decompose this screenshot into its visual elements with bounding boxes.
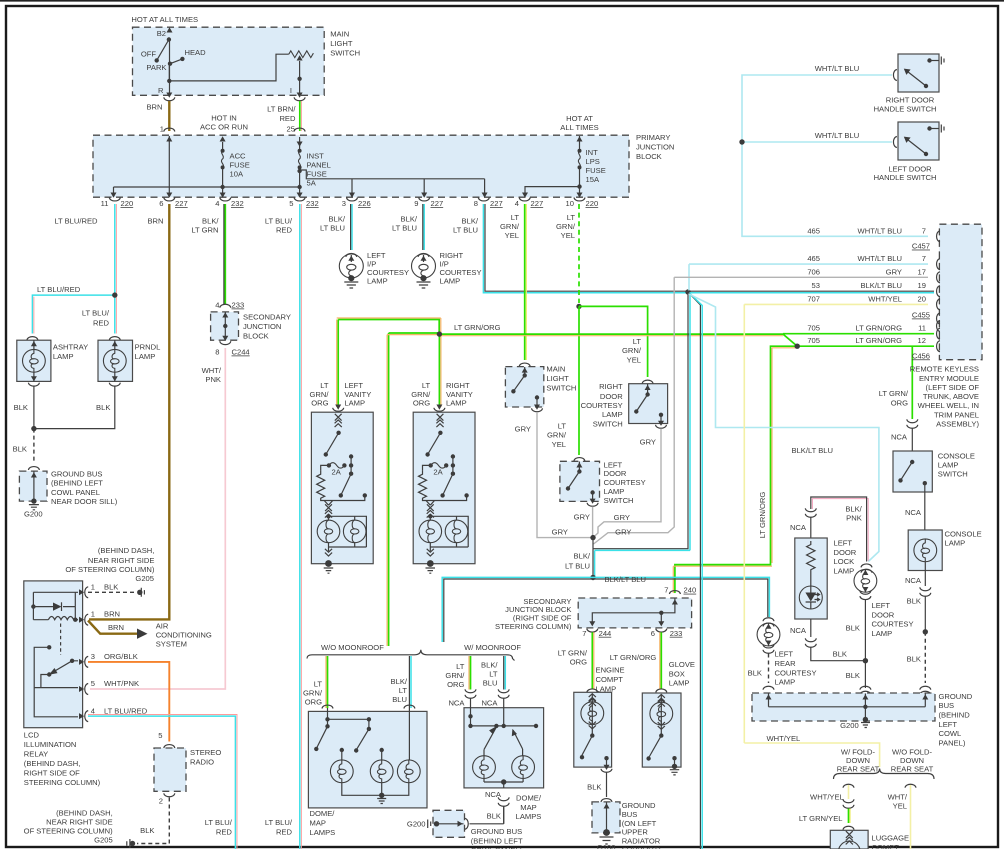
svg-text:B2: B2	[157, 29, 166, 38]
svg-text:RED: RED	[276, 225, 293, 234]
svg-text:W/ MOONROOF: W/ MOONROOF	[464, 643, 521, 652]
svg-text:REMOTE KEYLESS: REMOTE KEYLESS	[910, 365, 979, 374]
svg-text:RED: RED	[279, 114, 296, 123]
svg-text:WHT/: WHT/	[888, 792, 908, 801]
svg-text:TRUNK, ABOVE: TRUNK, ABOVE	[923, 392, 979, 401]
svg-text:LT GRN/: LT GRN/	[879, 389, 909, 398]
svg-text:NCA: NCA	[891, 432, 908, 441]
svg-text:STEREO: STEREO	[190, 748, 221, 757]
svg-text:465: 465	[807, 254, 820, 263]
svg-text:6: 6	[159, 199, 163, 208]
svg-text:(BEHIND DASH,: (BEHIND DASH,	[98, 546, 155, 555]
svg-text:(BEHIND: (BEHIND	[939, 711, 971, 720]
svg-text:REAR SEAT: REAR SEAT	[837, 765, 880, 774]
svg-text:LAMP: LAMP	[446, 399, 467, 408]
svg-text:7: 7	[922, 226, 926, 235]
svg-text:GRY: GRY	[574, 513, 590, 522]
svg-text:17: 17	[918, 267, 926, 276]
svg-text:MAP: MAP	[520, 803, 536, 812]
svg-text:7: 7	[582, 629, 586, 638]
svg-text:BLK/: BLK/	[202, 216, 219, 225]
svg-text:WHT/LT BLU: WHT/LT BLU	[858, 226, 902, 235]
svg-text:19: 19	[918, 281, 926, 290]
svg-text:1: 1	[91, 583, 95, 592]
svg-text:BRN: BRN	[108, 623, 124, 632]
svg-text:705: 705	[807, 324, 820, 333]
svg-text:GRN/: GRN/	[500, 222, 520, 231]
svg-text:BLK/: BLK/	[481, 661, 498, 670]
svg-text:LAMP: LAMP	[945, 538, 966, 547]
svg-text:SWITCH: SWITCH	[546, 384, 576, 393]
svg-text:RIGHT DOOR: RIGHT DOOR	[886, 96, 935, 105]
svg-text:RIGHT: RIGHT	[599, 382, 623, 391]
svg-text:(BEHIND LEFT: (BEHIND LEFT	[51, 479, 103, 488]
svg-text:233: 233	[232, 301, 245, 310]
svg-text:220: 220	[586, 199, 599, 208]
svg-text:HEAD: HEAD	[185, 48, 207, 57]
svg-text:BLK: BLK	[846, 624, 860, 633]
svg-text:HOT AT: HOT AT	[566, 114, 593, 123]
svg-text:RELAY: RELAY	[24, 750, 48, 759]
svg-text:GRY: GRY	[886, 267, 902, 276]
svg-text:705: 705	[807, 336, 820, 345]
svg-text:3: 3	[91, 652, 95, 661]
svg-text:LUGGAGE: LUGGAGE	[872, 834, 910, 843]
svg-text:8: 8	[215, 348, 219, 357]
svg-text:11: 11	[101, 199, 109, 208]
svg-text:BLK: BLK	[907, 597, 921, 606]
svg-text:WHT/YEL: WHT/YEL	[767, 734, 801, 743]
svg-text:4: 4	[215, 301, 219, 310]
svg-text:227: 227	[431, 199, 444, 208]
svg-text:LT BLU/: LT BLU/	[265, 818, 293, 827]
svg-text:ORG: ORG	[447, 680, 464, 689]
svg-text:BLK: BLK	[96, 403, 110, 412]
svg-text:LT GRN/ORG: LT GRN/ORG	[454, 323, 501, 332]
svg-text:HANDLE SWITCH: HANDLE SWITCH	[874, 105, 937, 114]
svg-text:ACC OR RUN: ACC OR RUN	[200, 122, 248, 131]
svg-text:PANEL: PANEL	[307, 161, 331, 170]
svg-text:NCA: NCA	[485, 790, 502, 799]
svg-text:RED: RED	[276, 828, 293, 837]
svg-text:LEFT: LEFT	[604, 460, 623, 469]
svg-text:4: 4	[515, 199, 519, 208]
svg-text:LCD: LCD	[24, 731, 40, 740]
svg-text:COURTESY: COURTESY	[604, 478, 646, 487]
svg-text:BLU: BLU	[392, 695, 407, 704]
svg-text:WHEEL WELL, IN: WHEEL WELL, IN	[918, 401, 979, 410]
svg-text:15A: 15A	[586, 175, 600, 184]
svg-text:NCA: NCA	[905, 508, 922, 517]
svg-text:ORG: ORG	[305, 698, 322, 707]
svg-text:(BEHIND DASH,: (BEHIND DASH,	[56, 809, 113, 818]
svg-text:CONDITIONING: CONDITIONING	[156, 630, 212, 639]
svg-text:4: 4	[215, 199, 219, 208]
svg-text:LT BLU/RED: LT BLU/RED	[54, 216, 98, 225]
svg-text:20: 20	[918, 294, 926, 303]
svg-text:LIGHT: LIGHT	[330, 39, 353, 48]
svg-text:LT BRN/: LT BRN/	[267, 105, 296, 114]
svg-text:220: 220	[121, 199, 134, 208]
svg-text:I: I	[290, 86, 292, 95]
svg-text:WHT/LT BLU: WHT/LT BLU	[815, 64, 859, 73]
svg-text:DOOR: DOOR	[834, 548, 857, 557]
svg-text:BLK/LT BLU: BLK/LT BLU	[860, 281, 902, 290]
svg-text:53: 53	[812, 281, 820, 290]
svg-text:BLK: BLK	[140, 826, 154, 835]
svg-text:NEAR DOOR SILL): NEAR DOOR SILL)	[51, 497, 118, 506]
svg-text:DOOR: DOOR	[872, 610, 895, 619]
svg-text:AIR: AIR	[156, 621, 169, 630]
svg-text:REAR SEAT: REAR SEAT	[891, 765, 934, 774]
svg-text:G205: G205	[135, 574, 154, 583]
svg-text:YEL: YEL	[505, 231, 519, 240]
svg-text:COWL: COWL	[939, 729, 962, 738]
svg-text:C456: C456	[912, 351, 930, 360]
svg-text:LT: LT	[320, 381, 329, 390]
svg-text:LT GRN/ORG: LT GRN/ORG	[610, 653, 657, 662]
svg-text:706: 706	[807, 267, 820, 276]
svg-text:226: 226	[358, 199, 371, 208]
svg-text:NCA: NCA	[481, 698, 498, 707]
svg-text:GROUND: GROUND	[939, 692, 973, 701]
svg-text:9: 9	[414, 199, 418, 208]
svg-text:BLK/: BLK/	[329, 215, 346, 224]
svg-text:W/O MOONROOF: W/O MOONROOF	[321, 643, 384, 652]
svg-text:JUNCTION: JUNCTION	[636, 143, 674, 152]
svg-text:CONSOLE: CONSOLE	[945, 529, 982, 538]
svg-text:LEFT: LEFT	[939, 720, 958, 729]
svg-text:G108: G108	[597, 843, 616, 849]
svg-text:LAMP: LAMP	[135, 352, 156, 361]
svg-text:(LEFT SIDE OF: (LEFT SIDE OF	[926, 383, 980, 392]
svg-text:WHT/YEL: WHT/YEL	[868, 294, 902, 303]
svg-text:UPPER: UPPER	[622, 828, 649, 837]
svg-text:6: 6	[651, 629, 655, 638]
svg-text:MAIN: MAIN	[546, 365, 565, 374]
svg-text:NCA: NCA	[448, 698, 465, 707]
svg-text:COURTESY: COURTESY	[775, 668, 817, 677]
svg-text:GRY: GRY	[614, 513, 630, 522]
svg-text:LT: LT	[567, 213, 576, 222]
svg-text:BLK/: BLK/	[845, 504, 862, 513]
svg-text:7: 7	[922, 254, 926, 263]
svg-text:HANDLE SWITCH: HANDLE SWITCH	[874, 173, 937, 182]
svg-text:244: 244	[599, 629, 612, 638]
svg-text:8: 8	[474, 199, 478, 208]
svg-text:GRN/: GRN/	[622, 346, 642, 355]
svg-text:25: 25	[287, 125, 295, 134]
svg-text:DOOR: DOOR	[604, 469, 627, 478]
svg-text:TRIM PANEL: TRIM PANEL	[934, 410, 979, 419]
svg-text:5A: 5A	[307, 179, 317, 188]
svg-text:NEAR RIGHT SIDE: NEAR RIGHT SIDE	[88, 556, 155, 565]
svg-text:NCA: NCA	[905, 576, 922, 585]
svg-text:ENGINE: ENGINE	[596, 666, 625, 675]
svg-text:4: 4	[91, 706, 95, 715]
svg-text:YEL: YEL	[552, 440, 566, 449]
svg-text:232: 232	[306, 199, 319, 208]
svg-text:LEFT DOOR: LEFT DOOR	[888, 164, 932, 173]
svg-text:LT BLU/RED: LT BLU/RED	[104, 706, 148, 715]
svg-text:LT GRN: LT GRN	[191, 225, 218, 234]
svg-text:BLOCK: BLOCK	[636, 152, 662, 161]
svg-text:DOME/: DOME/	[516, 794, 542, 803]
svg-text:WHT/LT BLU: WHT/LT BLU	[858, 254, 902, 263]
svg-text:ORG: ORG	[891, 399, 908, 408]
svg-text:YEL: YEL	[561, 231, 575, 240]
svg-text:COWL PANEL: COWL PANEL	[51, 488, 100, 497]
svg-text:BLOCK: BLOCK	[243, 332, 269, 341]
svg-text:BLK/: BLK/	[574, 552, 591, 561]
svg-text:COURTESY: COURTESY	[872, 620, 914, 629]
svg-text:MAP: MAP	[310, 819, 326, 828]
svg-text:LT BLU: LT BLU	[565, 562, 590, 571]
svg-text:7: 7	[664, 586, 668, 595]
svg-text:GRN/: GRN/	[303, 689, 323, 698]
svg-text:227: 227	[490, 199, 503, 208]
svg-text:LEFT: LEFT	[775, 650, 794, 659]
svg-text:LAMP: LAMP	[602, 410, 623, 419]
svg-text:COMPT: COMPT	[872, 843, 900, 849]
svg-text:LT: LT	[456, 662, 465, 671]
svg-text:ORG: ORG	[413, 399, 430, 408]
svg-text:SWITCH: SWITCH	[604, 496, 634, 505]
svg-text:LT: LT	[314, 680, 323, 689]
svg-text:BLK: BLK	[13, 445, 27, 454]
svg-text:SECONDARY: SECONDARY	[243, 313, 291, 322]
svg-text:LAMP: LAMP	[872, 629, 893, 638]
svg-text:LT: LT	[511, 213, 520, 222]
svg-text:(ON LEFT: (ON LEFT	[622, 819, 657, 828]
svg-text:WHT/LT BLU: WHT/LT BLU	[815, 131, 859, 140]
svg-text:BLK/: BLK/	[401, 215, 418, 224]
svg-text:FUSE: FUSE	[586, 166, 606, 175]
svg-text:C244: C244	[232, 348, 250, 357]
svg-text:11: 11	[918, 324, 926, 333]
svg-text:BRN: BRN	[147, 216, 163, 225]
svg-text:LT: LT	[422, 381, 431, 390]
svg-text:INST: INST	[307, 152, 325, 161]
svg-text:LIGHT: LIGHT	[546, 374, 569, 383]
svg-text:5: 5	[158, 731, 162, 740]
svg-text:GRY: GRY	[615, 528, 631, 537]
svg-text:GLOVE: GLOVE	[669, 660, 695, 669]
svg-text:LT GRN/ORG: LT GRN/ORG	[855, 336, 902, 345]
svg-text:G200: G200	[840, 721, 859, 730]
svg-text:LT GRN/YEL: LT GRN/YEL	[799, 814, 843, 823]
svg-text:BLU: BLU	[483, 679, 498, 688]
svg-text:BRN: BRN	[104, 610, 120, 619]
svg-text:LAMP: LAMP	[669, 679, 690, 688]
svg-text:GROUND: GROUND	[622, 801, 656, 810]
svg-text:10A: 10A	[230, 170, 244, 179]
svg-text:ORG: ORG	[570, 658, 587, 667]
svg-text:NEAR RIGHT SIDE: NEAR RIGHT SIDE	[46, 818, 113, 827]
svg-text:LEFT: LEFT	[872, 601, 891, 610]
svg-text:PARK: PARK	[146, 63, 166, 72]
svg-text:LT BLU: LT BLU	[320, 223, 345, 232]
svg-text:LT: LT	[558, 422, 567, 431]
svg-text:5: 5	[91, 679, 95, 688]
svg-text:BLK/: BLK/	[462, 216, 479, 225]
svg-text:RIGHT SIDE OF: RIGHT SIDE OF	[24, 769, 80, 778]
svg-text:2: 2	[159, 797, 163, 806]
svg-text:G200: G200	[407, 819, 426, 828]
svg-text:ILLUMINATION: ILLUMINATION	[24, 740, 77, 749]
svg-text:C457: C457	[912, 242, 930, 251]
svg-text:GRY: GRY	[515, 424, 531, 433]
svg-text:BLK: BLK	[487, 811, 501, 820]
svg-text:WHT/YEL: WHT/YEL	[810, 792, 844, 801]
svg-text:NCA: NCA	[790, 626, 807, 635]
svg-text:LAMP: LAMP	[604, 487, 625, 496]
svg-text:SWITCH: SWITCH	[938, 469, 968, 478]
svg-text:G200: G200	[24, 510, 43, 519]
svg-text:12: 12	[918, 336, 926, 345]
svg-text:5: 5	[289, 199, 293, 208]
svg-text:233: 233	[670, 629, 683, 638]
svg-text:LEFT: LEFT	[344, 381, 363, 390]
svg-text:BLK: BLK	[14, 403, 28, 412]
svg-text:LAMP: LAMP	[834, 567, 855, 576]
svg-text:SYSTEM: SYSTEM	[156, 639, 187, 648]
svg-text:GROUND BUS: GROUND BUS	[471, 827, 522, 836]
svg-text:YEL: YEL	[893, 802, 907, 811]
svg-text:MAIN: MAIN	[330, 30, 349, 39]
svg-text:LAMP: LAMP	[53, 352, 74, 361]
svg-text:LAMP: LAMP	[775, 678, 796, 687]
svg-text:WHT/: WHT/	[202, 366, 222, 375]
svg-text:GRN/: GRN/	[547, 431, 567, 440]
svg-text:SWITCH: SWITCH	[593, 419, 623, 428]
svg-text:LT GRN/ORG: LT GRN/ORG	[855, 324, 902, 333]
svg-text:RIGHT: RIGHT	[446, 381, 470, 390]
svg-text:ASHTRAY: ASHTRAY	[53, 343, 88, 352]
svg-text:BRN: BRN	[146, 103, 162, 112]
svg-text:PNK: PNK	[205, 375, 221, 384]
svg-text:COMPT: COMPT	[596, 675, 624, 684]
svg-text:ALL TIMES: ALL TIMES	[560, 123, 598, 132]
svg-text:OF STEERING COLUMN): OF STEERING COLUMN)	[24, 827, 113, 836]
svg-text:YEL: YEL	[627, 356, 641, 365]
svg-text:LT BLU: LT BLU	[453, 225, 478, 234]
svg-text:1: 1	[91, 610, 95, 619]
svg-text:BLK: BLK	[587, 783, 601, 792]
svg-text:LAMPS: LAMPS	[310, 828, 336, 837]
svg-text:BLK: BLK	[833, 650, 847, 659]
svg-text:GRY: GRY	[552, 528, 568, 537]
svg-text:LOCK: LOCK	[834, 557, 855, 566]
svg-text:BUS: BUS	[939, 701, 955, 710]
svg-text:PRNDL: PRNDL	[135, 343, 161, 352]
svg-text:COURTESY: COURTESY	[581, 401, 623, 410]
svg-text:ACC: ACC	[230, 152, 247, 161]
svg-text:R: R	[158, 86, 164, 95]
svg-text:240: 240	[684, 586, 697, 595]
svg-text:LT GRN/: LT GRN/	[558, 649, 588, 658]
svg-text:(BEHIND LEFT: (BEHIND LEFT	[471, 837, 523, 846]
svg-text:BLK: BLK	[748, 668, 762, 677]
svg-text:BLK: BLK	[846, 671, 860, 680]
svg-text:BLK/: BLK/	[391, 677, 408, 686]
svg-text:227: 227	[531, 199, 544, 208]
svg-text:LAMPS: LAMPS	[516, 812, 542, 821]
svg-text:BUS: BUS	[622, 810, 638, 819]
svg-text:LT BLU/: LT BLU/	[82, 309, 110, 318]
svg-text:RED: RED	[93, 319, 110, 328]
svg-text:OFF: OFF	[141, 49, 157, 58]
svg-text:232: 232	[231, 199, 244, 208]
svg-text:LT: LT	[489, 670, 498, 679]
svg-text:STEERING COLUMN): STEERING COLUMN)	[24, 778, 101, 787]
svg-text:NCA: NCA	[790, 523, 807, 532]
svg-text:ORG/BLK: ORG/BLK	[104, 652, 138, 661]
svg-text:INT: INT	[586, 148, 599, 157]
svg-text:RED: RED	[216, 828, 233, 837]
svg-text:GRN/: GRN/	[445, 671, 465, 680]
svg-text:DOOR: DOOR	[600, 392, 623, 401]
svg-text:CONSOLE: CONSOLE	[938, 451, 975, 460]
svg-text:SWITCH: SWITCH	[330, 49, 360, 58]
svg-text:LEFT: LEFT	[834, 539, 853, 548]
svg-text:10: 10	[566, 199, 574, 208]
svg-text:ENTRY MODULE: ENTRY MODULE	[919, 374, 979, 383]
svg-text:LT BLU: LT BLU	[392, 223, 417, 232]
svg-text:REAR: REAR	[775, 659, 797, 668]
svg-text:PRIMARY: PRIMARY	[636, 133, 670, 142]
svg-text:LAMP: LAMP	[344, 399, 365, 408]
svg-text:RADIATOR: RADIATOR	[622, 836, 661, 845]
svg-text:JUNCTION: JUNCTION	[243, 322, 281, 331]
svg-text:707: 707	[807, 294, 820, 303]
svg-text:G205: G205	[94, 836, 113, 845]
svg-text:LT BLU/: LT BLU/	[205, 818, 233, 827]
svg-text:GRY: GRY	[640, 437, 656, 446]
svg-text:PANEL): PANEL)	[939, 738, 966, 747]
svg-text:LT: LT	[633, 337, 642, 346]
svg-text:LAMP: LAMP	[440, 277, 461, 286]
svg-text:LT BLU/RED: LT BLU/RED	[37, 285, 81, 294]
svg-text:STEERING COLUMN): STEERING COLUMN)	[495, 622, 572, 631]
svg-text:BOX: BOX	[669, 669, 685, 678]
svg-text:465: 465	[807, 226, 820, 235]
svg-text:BLK/LT BLU: BLK/LT BLU	[792, 446, 834, 455]
svg-text:RADIO: RADIO	[190, 758, 214, 767]
svg-text:SUPPORT): SUPPORT)	[622, 845, 662, 849]
svg-text:HOT IN: HOT IN	[211, 113, 237, 122]
svg-text:LT: LT	[399, 686, 408, 695]
svg-text:ASSEMBLY): ASSEMBLY)	[936, 420, 979, 429]
svg-text:LAMP: LAMP	[938, 460, 959, 469]
svg-text:LAMP: LAMP	[367, 277, 388, 286]
svg-text:LT GRN/ORG: LT GRN/ORG	[758, 492, 767, 539]
svg-text:OF STEERING COLUMN): OF STEERING COLUMN)	[65, 565, 154, 574]
svg-text:BLK/LT BLU: BLK/LT BLU	[605, 575, 647, 584]
svg-text:BLK: BLK	[907, 655, 921, 664]
svg-text:LT BLU/: LT BLU/	[265, 216, 293, 225]
svg-text:DOME/: DOME/	[310, 809, 336, 818]
svg-text:PNK: PNK	[846, 514, 862, 523]
svg-text:GROUND BUS: GROUND BUS	[51, 470, 102, 479]
svg-text:ORG: ORG	[311, 399, 328, 408]
svg-text:FUSE: FUSE	[230, 161, 250, 170]
svg-text:227: 227	[175, 199, 188, 208]
svg-text:1: 1	[160, 125, 164, 134]
svg-text:(BEHIND DASH,: (BEHIND DASH,	[24, 759, 81, 768]
svg-text:C455: C455	[912, 311, 930, 320]
svg-text:FUSE: FUSE	[307, 170, 327, 179]
